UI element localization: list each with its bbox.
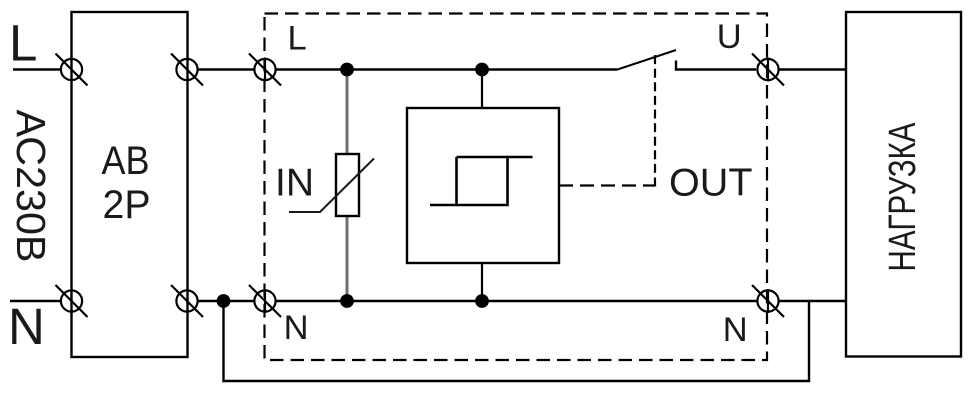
varistor diagonal stroke [289, 159, 374, 213]
terminal SPD N left [249, 285, 281, 317]
wire L bus inside SPD [276, 68, 618, 70]
terminal breaker L out [171, 54, 203, 86]
svg-text:АС230В: АС230В [8, 110, 54, 263]
wire dashed control horizontal [559, 184, 655, 186]
svg-text:U: U [717, 18, 742, 56]
breaker AB 2P box [72, 12, 188, 357]
terminal breaker N out [171, 285, 203, 317]
relay U1 box [407, 108, 559, 263]
wire varistor top (gray) [346, 70, 349, 155]
svg-text:L: L [9, 15, 37, 72]
varistor RU1 body [336, 154, 359, 216]
terminal SPD L [249, 54, 281, 86]
wire dashed control vertical [654, 55, 656, 187]
wire U terminal to load [778, 68, 848, 70]
wire N lead [10, 300, 60, 302]
junction dot L bus at varistor [340, 63, 354, 77]
wire L lead [13, 68, 61, 70]
svg-text:N: N [8, 298, 45, 355]
svg-text:N: N [723, 311, 748, 349]
junction dot L bus at relay [475, 63, 489, 77]
wire relay bottom pin [481, 263, 483, 301]
svg-text:2Р: 2Р [103, 183, 151, 227]
wire relay top pin [481, 70, 483, 109]
svg-text:OUT: OUT [669, 162, 753, 205]
terminal breaker L in [56, 54, 88, 86]
svg-text:IN: IN [275, 162, 314, 205]
wire N bus inside SPD [276, 300, 757, 302]
load box [846, 12, 961, 357]
wire breaker to SPD, L row [198, 68, 255, 70]
wire breaker to SPD, N row [198, 300, 255, 302]
terminal breaker N in [56, 285, 88, 317]
junction dot N bus at varistor [340, 294, 354, 308]
switch fixed contact [676, 61, 756, 70]
terminal SPD U [752, 54, 784, 86]
junction dot N feed [217, 294, 231, 308]
svg-text:АВ: АВ [102, 139, 150, 183]
wire N return path [224, 301, 810, 381]
wire varistor bottom (gray) [346, 216, 349, 301]
svg-text:N: N [284, 309, 309, 347]
SPD dashed enclosure [265, 14, 768, 361]
junction dot N bus at relay [475, 294, 489, 308]
terminal SPD N right [752, 285, 784, 317]
switch S1 blade [618, 50, 677, 70]
svg-text:НАГРУЗКА: НАГРУЗКА [882, 122, 924, 272]
wire N terminal to load [778, 300, 848, 302]
svg-text:L: L [288, 20, 307, 58]
hysteresis symbol [430, 157, 533, 205]
